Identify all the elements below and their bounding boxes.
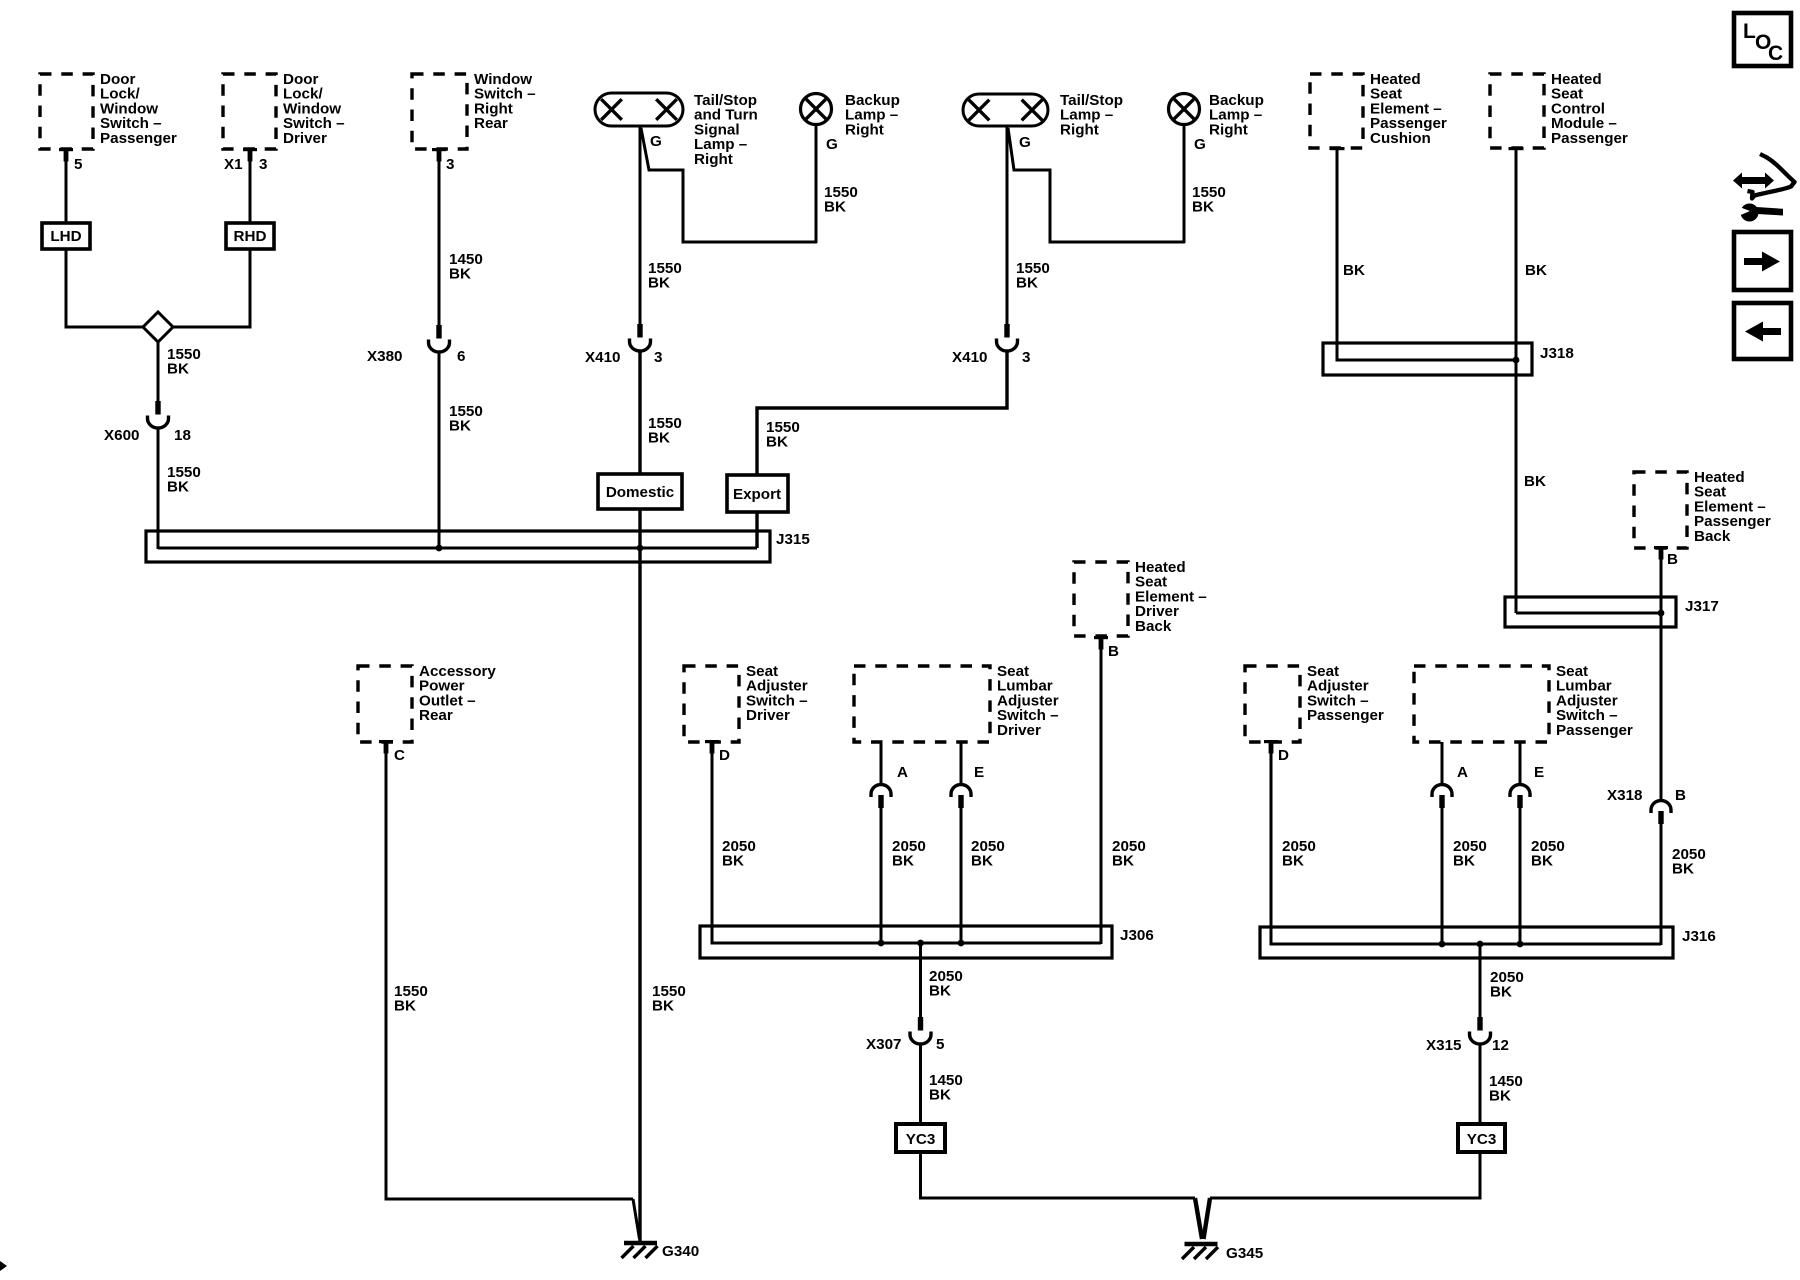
splice pack J306 [700, 926, 1112, 958]
wire: lumbar switch passenger pin A to connector [1441, 742, 1444, 785]
component box: Door Lock/Window Switch - Passenger [40, 71, 177, 162]
wire: tail/stop lamp to connector X410 [639, 126, 642, 324]
wire label 2050 BK (J306 to X307) [929, 968, 963, 1000]
wire label BK (cushion element to J318) [1343, 262, 1365, 279]
junction dot (lumbar E wire at J306) [958, 940, 965, 947]
svg-text:A: A [1457, 764, 1468, 781]
wire: lumbar driver pin A connector to J306 [880, 807, 883, 945]
pin D label (seat adjuster switch passenger) [1278, 747, 1289, 764]
pin A label (lumbar driver) [897, 764, 908, 781]
svg-text:Passenger: Passenger [1551, 130, 1628, 147]
connector label X315 [1426, 1037, 1462, 1054]
svg-text:Right: Right [694, 151, 733, 168]
svg-text:E: E [974, 764, 984, 781]
svg-text:G: G [826, 136, 838, 153]
wire label BK (control module to J318) [1525, 262, 1547, 279]
wire label 1550 BK (backup lamp right, first) [824, 184, 858, 216]
wire: tail/stop lamp 2 to connector X410 [1006, 126, 1009, 324]
component box: Heated Seat Control Module - Passenger [1490, 71, 1628, 150]
connector pin E (lumbar driver) [951, 785, 971, 809]
wire: lumbar switch driver pin E to connector [960, 742, 963, 785]
splice pack label J306 [1120, 927, 1154, 944]
splice diamond (LHD/RHD wire merge) [143, 312, 173, 342]
wire: tail/stop lamp 2 ground branch to backup lamp wire [1008, 128, 1185, 242]
splice pack J317 [1505, 597, 1676, 627]
svg-text:BK: BK [1531, 853, 1553, 870]
svg-text:X307: X307 [866, 1036, 901, 1053]
svg-text:Passenger: Passenger [1556, 722, 1633, 739]
pin E label (lumbar passenger) [1534, 764, 1544, 781]
svg-text:X318: X318 [1607, 787, 1642, 804]
pin 3 label (X410 domestic) [654, 349, 662, 366]
wire: tail/stop lamp ground branch to backup lamp wire [641, 128, 817, 242]
svg-text:3: 3 [654, 349, 662, 366]
svg-text:Rear: Rear [474, 115, 508, 132]
wire label 2050 BK (seat adjuster passenger to J316) [1282, 838, 1316, 870]
svg-text:BK: BK [648, 275, 670, 292]
connector label X380 [367, 348, 402, 365]
splice pack label J317 [1685, 598, 1719, 615]
splice pack J316 [1260, 927, 1673, 958]
wire: seat adjuster switch passenger to splice pack J316 [1271, 752, 1283, 944]
wire: heated seat element cushion to splice pack J318 [1337, 148, 1516, 360]
svg-text:BK: BK [722, 853, 744, 870]
wire label 2050 BK (lumbar driver pin A) [892, 838, 926, 870]
svg-text:Rear: Rear [419, 707, 453, 724]
wire: RHD box to splice diamond [171, 249, 250, 327]
connector label X410 (domestic branch) [585, 349, 620, 366]
svg-text:Right: Right [1060, 121, 1099, 138]
svg-text:X1: X1 [224, 156, 243, 173]
svg-text:BK: BK [1525, 262, 1547, 279]
svg-text:J315: J315 [776, 531, 810, 548]
wire: YC3 to ground G345 [921, 1152, 1196, 1198]
wire label 1450 BK (X307 to YC3) [929, 1072, 963, 1104]
wire: lumbar passenger pin E connector to J316 [1519, 807, 1522, 946]
svg-text:5: 5 [74, 156, 83, 173]
connector label X307 [866, 1036, 901, 1053]
junction dot (lumbar E wire at J316) [1517, 941, 1524, 948]
pin A label (lumbar passenger) [1457, 764, 1468, 781]
svg-text:BK: BK [652, 998, 674, 1015]
wire label 1550 BK (J315 to G340) [652, 983, 686, 1015]
ground G345 [1182, 1244, 1218, 1259]
option box Domestic [598, 474, 682, 509]
wire label 1550 BK (X410 to Domestic box) [648, 415, 682, 447]
ground G340 [622, 1243, 658, 1258]
svg-text:BK: BK [1490, 984, 1512, 1001]
wire label 2050 BK (lumbar driver pin E) [971, 838, 1005, 870]
component box: Heated Seat Element - Driver Back [1074, 559, 1207, 650]
svg-text:X380: X380 [367, 348, 402, 365]
svg-text:A: A [897, 764, 908, 781]
component box: Heated Seat Element - Passenger Cushion [1310, 71, 1447, 150]
page edge mark (bottom left) [0, 1261, 7, 1271]
pin C label (accessory power outlet) [394, 747, 405, 764]
wire label 1550 BK (tail/stop lamp 2 to X410) [1016, 260, 1050, 292]
svg-text:5: 5 [936, 1036, 945, 1053]
pin G label (tail/stop lamp right) [650, 133, 662, 150]
wire label 2050 BK (lumbar passenger pin A) [1453, 838, 1487, 870]
junction dot (ground feed at J306) [917, 940, 924, 947]
wire: X410 through Domestic option box to ground G340 [638, 351, 641, 1241]
junction dot (ground feed at J316) [1477, 941, 1484, 948]
svg-text:Back: Back [1135, 618, 1172, 635]
svg-text:X600: X600 [104, 427, 139, 444]
wire: X380 to splice pack J315 [438, 352, 441, 549]
pin D label (seat adjuster switch driver) [719, 747, 730, 764]
wire: X307 to eyelet YC3 [919, 1044, 922, 1125]
svg-text:G: G [650, 133, 662, 150]
component box: Accessory Power Outlet - Rear [358, 663, 496, 754]
connector X307 pin 5 [910, 1017, 931, 1044]
svg-text:BK: BK [449, 418, 471, 435]
connector X318 pin B [1651, 801, 1671, 825]
svg-text:Cushion: Cushion [1370, 130, 1431, 147]
junction dot (lumbar A wire at J316) [1439, 941, 1446, 948]
svg-text:C: C [394, 747, 405, 764]
wire: LHD box to splice diamond [66, 249, 145, 327]
svg-text:BK: BK [394, 998, 416, 1015]
splice pack J318 [1323, 343, 1532, 375]
pin 12 label (X315) [1492, 1037, 1509, 1054]
component box: Seat Adjuster Switch - Passenger [1245, 663, 1384, 754]
junction dot (module wire at J318) [1513, 357, 1520, 364]
icon: diagnostic reference (double arrow, scribble outline, wrench) [1733, 154, 1795, 222]
connector X380 pin 6 [429, 325, 450, 352]
svg-text:Passenger: Passenger [1307, 707, 1384, 724]
option box LHD [42, 223, 90, 249]
svg-text:D: D [719, 747, 730, 764]
wire: accessory power outlet to ground G340 [386, 752, 640, 1239]
splice pack label J315 [776, 531, 810, 548]
svg-text:3: 3 [446, 156, 454, 173]
connector X410 pin 3 (domestic branch) [630, 324, 651, 351]
svg-text:Driver: Driver [746, 707, 790, 724]
wire: X315 to eyelet YC3 [1479, 1044, 1482, 1125]
pin 18 label (X600) [174, 427, 191, 444]
splice pack J315 [146, 531, 770, 562]
svg-text:Back: Back [1694, 528, 1731, 545]
svg-text:J306: J306 [1120, 927, 1154, 944]
svg-text:BK: BK [1453, 853, 1475, 870]
wire: X600 to splice pack J315 [157, 428, 160, 549]
svg-text:BK: BK [929, 1087, 951, 1104]
wire: backup lamp to ground branch [815, 125, 818, 243]
option box RHD [226, 223, 274, 249]
pin B label (heated seat element driver back) [1108, 643, 1119, 660]
pin 3 label (X410 export) [1022, 349, 1030, 366]
svg-text:BK: BK [824, 199, 846, 216]
svg-text:LHD: LHD [50, 228, 81, 245]
wire label 1550 BK (backup lamp right, second) [1192, 184, 1226, 216]
svg-text:BK: BK [1672, 861, 1694, 878]
svg-text:BK: BK [648, 430, 670, 447]
svg-text:J318: J318 [1540, 345, 1574, 362]
wire: passenger door switch pin 5 to LHD option box [65, 160, 68, 225]
wire: Export box to splice pack J315 [755, 512, 758, 548]
svg-text:J317: J317 [1685, 598, 1719, 615]
svg-text:BK: BK [449, 266, 471, 283]
svg-text:YC3: YC3 [906, 1131, 936, 1148]
svg-text:BK: BK [1343, 262, 1365, 279]
pin G label (tail/stop lamp right 2) [1019, 134, 1031, 151]
component box: Seat Lumbar Adjuster Switch - Passenger [1414, 663, 1633, 742]
connector label X318 [1607, 787, 1642, 804]
svg-text:BK: BK [1282, 853, 1304, 870]
svg-text:BK: BK [766, 434, 788, 451]
wire label 1450 BK (window switch to X380) [449, 251, 483, 283]
wire: backup lamp 2 to ground branch [1183, 125, 1186, 243]
wire: splice diamond to connector X600 [157, 342, 160, 401]
svg-text:3: 3 [1022, 349, 1030, 366]
svg-text:BK: BK [1489, 1088, 1511, 1105]
wire label 1550 BK (accessory outlet to G340) [394, 983, 428, 1015]
junction dot (passenger back wire at J317) [1658, 610, 1665, 617]
connector pin A (lumbar passenger) [1432, 785, 1452, 809]
wire: lumbar driver pin E connector to J306 [960, 807, 963, 945]
icon: backward arrow box [1734, 303, 1791, 359]
svg-text:Export: Export [733, 486, 781, 503]
svg-text:B: B [1667, 551, 1678, 568]
svg-text:BK: BK [929, 983, 951, 1000]
svg-text:Passenger: Passenger [100, 130, 177, 147]
wire: lumbar passenger pin A connector to J316 [1441, 807, 1444, 946]
wire: lumbar switch driver pin A to connector [880, 742, 883, 785]
ground label G340 [662, 1243, 699, 1260]
svg-text:BK: BK [1524, 473, 1546, 490]
pin label X1 (driver door switch) [224, 156, 243, 173]
wire label 2050 BK (lumbar passenger pin E) [1531, 838, 1565, 870]
eyelet YC3 (passenger side) [1458, 1124, 1505, 1152]
pin G label (backup lamp right, first) [826, 136, 838, 153]
wire label 2050 BK (X318 to J316) [1672, 846, 1706, 878]
svg-text:BK: BK [892, 853, 914, 870]
component box: Seat Lumbar Adjuster Switch - Driver [854, 663, 1059, 742]
svg-text:Right: Right [1209, 121, 1248, 138]
pin 3 label (driver door switch) [259, 156, 267, 173]
svg-text:BK: BK [1112, 853, 1134, 870]
wire label 1550 BK (X410 to Export box) [766, 419, 800, 451]
svg-text:BK: BK [971, 853, 993, 870]
wire label 1450 BK (X315 to YC3) [1489, 1073, 1523, 1105]
lamp: Backup Lamp - Right (first) [801, 92, 900, 138]
wire: seat adjuster switch driver to splice pack J306 [712, 752, 724, 943]
svg-text:E: E [1534, 764, 1544, 781]
svg-text:6: 6 [457, 348, 465, 365]
connector label X600 [104, 427, 139, 444]
ground label G345 [1226, 1245, 1264, 1262]
svg-text:BK: BK [1192, 199, 1214, 216]
pin G label (backup lamp right, second) [1194, 136, 1206, 153]
svg-text:G345: G345 [1226, 1245, 1264, 1262]
svg-text:B: B [1108, 643, 1119, 660]
svg-text:Driver: Driver [997, 722, 1041, 739]
junction dot (domestic wire at J315) [637, 545, 644, 552]
wire label 2050 BK (driver back to J306) [1112, 838, 1146, 870]
icon: forward arrow box [1734, 232, 1791, 290]
svg-text:BK: BK [167, 361, 189, 378]
option box Export [727, 475, 788, 512]
wire: J316 to connector X315 [1479, 944, 1482, 1017]
wire: J306 to connector X307 [919, 943, 922, 1017]
svg-text:YC3: YC3 [1467, 1131, 1497, 1148]
svg-text:RHD: RHD [234, 228, 267, 245]
svg-text:G340: G340 [662, 1243, 699, 1260]
lamp: Tail/Stop Lamp - Right (dual filament) [963, 92, 1123, 138]
svg-text:Right: Right [845, 121, 884, 138]
svg-text:X410: X410 [585, 349, 620, 366]
ground G345 funnel [1195, 1198, 1210, 1239]
wire: heated seat control module through J318 to J317 [1515, 148, 1518, 613]
pin B label (heated seat element passenger back) [1667, 551, 1678, 568]
svg-text:G: G [1194, 136, 1206, 153]
junction dot (X380 wire at J315) [436, 545, 443, 552]
svg-text:J316: J316 [1682, 928, 1716, 945]
junction dot (lumbar A wire at J306) [878, 940, 885, 947]
svg-text:Domestic: Domestic [606, 484, 674, 501]
svg-text:G: G [1019, 134, 1031, 151]
splice pack label J318 [1540, 345, 1574, 362]
legend box LOC [1734, 13, 1791, 66]
connector pin A (lumbar driver) [871, 785, 891, 809]
wire label 1550 BK (tail/stop lamp to X410) [648, 260, 682, 292]
lamp: Backup Lamp - Right (second) [1169, 92, 1264, 138]
svg-text:BK: BK [167, 479, 189, 496]
pin B label (X318) [1675, 787, 1686, 804]
svg-text:BK: BK [1016, 275, 1038, 292]
connector X315 pin 12 [1470, 1017, 1491, 1044]
component box: Window Switch - Right Rear [412, 71, 536, 162]
svg-text:X315: X315 [1426, 1037, 1462, 1054]
wire label 1550 BK (X600 to J315) [167, 464, 201, 496]
wire: X318 to splice pack J316 [1660, 823, 1663, 945]
wire: lumbar switch passenger pin E to connector [1519, 742, 1522, 785]
connector pin E (lumbar passenger) [1510, 785, 1530, 809]
eyelet YC3 (driver side) [896, 1124, 945, 1152]
connector X600 pin 18 [148, 401, 169, 428]
component box: Heated Seat Element - Passenger Back [1634, 469, 1771, 560]
pin 6 label (X380) [457, 348, 465, 365]
pin E label (lumbar driver) [974, 764, 984, 781]
wire label 2050 BK (seat adjuster driver to J306) [722, 838, 756, 870]
component box: Seat Adjuster Switch - Driver [684, 663, 808, 754]
svg-text:X410: X410 [952, 349, 987, 366]
wire: heated seat element passenger back through J317 to X318 [1660, 558, 1663, 801]
connector label X410 (export branch) [952, 349, 987, 366]
pin 3 label (window switch right rear) [446, 156, 454, 173]
wire: X410 export branch to Export option box [757, 351, 1007, 476]
pin 5 label (X307) [936, 1036, 945, 1053]
lamp: Tail/Stop and Turn Signal Lamp - Right (dual filament) [595, 92, 758, 168]
svg-text:18: 18 [174, 427, 191, 444]
wire: YC3 to ground G345 [1210, 1152, 1480, 1198]
wire: heated seat element driver back to splice pack J306 [1100, 648, 1103, 944]
wire: driver door switch pin 3 to RHD option box [249, 160, 252, 225]
splice pack label J316 [1682, 928, 1716, 945]
connector X410 pin 3 (export branch) [997, 324, 1018, 351]
svg-text:B: B [1675, 787, 1686, 804]
svg-text:D: D [1278, 747, 1289, 764]
component box: Door Lock/Window Switch - Driver [223, 71, 345, 162]
pin 5 label (Door Lock/Window Switch - Passenger) [74, 156, 83, 173]
svg-text:3: 3 [259, 156, 267, 173]
wire label 2050 BK (J316 to X315) [1490, 969, 1524, 1001]
wire label BK (J318 to J317) [1524, 473, 1546, 490]
wire label 1550 BK (X380 to J315) [449, 403, 483, 435]
wire: window switch right rear to connector X380 [438, 160, 441, 325]
svg-text:12: 12 [1492, 1037, 1509, 1054]
svg-text:C: C [1768, 42, 1783, 65]
wire label 1550 BK (below splice diamond) [167, 346, 201, 378]
svg-text:Driver: Driver [283, 130, 327, 147]
